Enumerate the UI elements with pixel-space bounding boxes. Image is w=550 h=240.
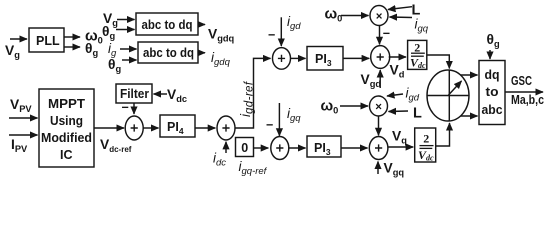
node GSC label [511, 74, 532, 88]
wire dq2abc to GSC [505, 91, 543, 93]
wire L to M2 [389, 110, 409, 113]
wire J5 to scaling bottom [388, 146, 413, 148]
multiplier M1 [370, 6, 388, 26]
summing junction J3 [273, 48, 291, 70]
block PI3 upper [307, 47, 343, 71]
svg-text:MPPT: MPPT [48, 97, 85, 111]
wire modulator to dq2abc lower [461, 115, 478, 117]
wire M2 to J5 [378, 116, 380, 135]
svg-text:to: to [486, 85, 499, 99]
wire thetag to abc2dq1 [116, 29, 135, 31]
block zero reference [236, 138, 254, 157]
block PI3 lower [307, 136, 341, 157]
modulator horizontal diameter [427, 95, 469, 97]
wire Filter to J1 [133, 103, 135, 114]
wire Vg to PLL [10, 38, 27, 40]
node igd label top [287, 14, 301, 32]
wire MPPT to junction J1 [94, 127, 124, 129]
wire igq to M1 [390, 16, 413, 19]
node thetag label col2a [102, 24, 115, 41]
wire 0 to J6 [254, 147, 269, 149]
wire thetag to abc2dq2 [122, 59, 137, 61]
wire igq to J6 [278, 103, 280, 136]
wire Vdc to Filter [154, 93, 168, 95]
block scaling 2/Vdc bottom [415, 128, 436, 162]
wire VPV to MPPT [9, 117, 38, 119]
wire J2 to J3 (igd-ref) [235, 58, 271, 128]
wire Vgd to J4 [379, 70, 381, 88]
block scaling 2/Vdc top [408, 40, 427, 69]
svg-text:Ma,b,c: Ma,b,c [511, 93, 544, 107]
block MPPT [39, 89, 94, 167]
wire scaling top to modulator [427, 55, 450, 68]
node L label bottom [413, 106, 422, 122]
wire J4 to scaling top [389, 56, 406, 58]
wire PLL to thetag [64, 46, 80, 48]
wire igd to J3 [280, 17, 282, 46]
node Vd label [390, 63, 405, 80]
wire omega0 to M2 [340, 105, 368, 107]
block PI4 [160, 115, 195, 137]
node Vq label [392, 129, 407, 146]
block abc-to-dq lower [138, 42, 198, 63]
sign minus at J3 [268, 28, 275, 42]
node Mabc label [511, 93, 544, 107]
wire J3 to PI3a [291, 57, 306, 59]
node IPV label [11, 137, 28, 154]
sign minus at J4 [383, 27, 390, 41]
wire modulator to dq2abc upper [461, 74, 478, 76]
node thetag label col2b [108, 57, 121, 74]
wire PLL to w0 [64, 36, 80, 38]
svg-text:−: − [268, 28, 275, 42]
summing junction J6 [271, 137, 289, 160]
modulator needle arrow [449, 81, 462, 95]
svg-text:dq: dq [485, 68, 500, 82]
svg-text:Using: Using [50, 114, 83, 128]
svg-text:Modified: Modified [41, 131, 92, 145]
node igq label top [415, 17, 429, 35]
svg-text:−: − [383, 27, 390, 41]
node L label top [412, 3, 421, 19]
block dq-to-abc [479, 61, 505, 125]
wire IPV to MPPT [9, 134, 38, 136]
svg-text:abc to dq: abc to dq [142, 18, 193, 32]
multiplier M2 [370, 96, 388, 116]
wire PI4 to J2 [195, 127, 215, 129]
wire thetag to dq2abc [489, 50, 491, 59]
node igdq label [211, 50, 231, 68]
svg-text:0: 0 [241, 141, 248, 155]
wire ig to abc2dq2 [120, 48, 137, 50]
wire PI3b to J5 [341, 147, 368, 149]
wire idc to J2 [225, 142, 227, 153]
node ig label [108, 41, 117, 59]
wire abc2dq1 out [198, 24, 205, 26]
node igd-ref rotated label [238, 80, 256, 117]
node Vgq label [384, 161, 405, 178]
wire abc2dq2 out [198, 52, 205, 54]
summing junction J4 [371, 46, 390, 69]
wire J6 to PI3b [288, 147, 305, 149]
wire scaling bottom to modulator [436, 123, 450, 146]
summing junction J2 [217, 116, 235, 140]
node omega0 bottom label [321, 98, 339, 116]
block PLL [29, 28, 64, 52]
node Vdc label [167, 87, 187, 104]
wire Vgq to J5 [377, 162, 379, 175]
svg-text:IC: IC [60, 148, 73, 162]
svg-text:2: 2 [423, 132, 429, 146]
wire M1 to J4 [379, 26, 381, 45]
svg-text:2: 2 [414, 41, 420, 55]
node Vdc-ref label [100, 137, 132, 154]
node igq label mid [287, 106, 301, 124]
svg-text:GSC: GSC [511, 74, 532, 88]
svg-text:abc: abc [482, 103, 503, 117]
node omega0 top label [325, 6, 343, 24]
node idc label [213, 151, 226, 169]
wire J1 to PI4 [143, 127, 158, 129]
modulator vertical diameter [448, 71, 450, 121]
svg-text:PLL: PLL [36, 34, 60, 48]
node Vg label col2 [103, 11, 118, 28]
svg-text:−: − [266, 118, 273, 132]
svg-text:L: L [413, 106, 422, 122]
wire L to M1 [388, 7, 412, 10]
node VPV label [10, 97, 32, 114]
svg-text:abc to dq: abc to dq [143, 46, 194, 60]
wire igd to M2 [387, 94, 403, 96]
node igq-ref label [239, 159, 268, 177]
block abc-to-dq upper [136, 13, 198, 35]
svg-text:−: − [122, 101, 129, 115]
modulator circle [427, 70, 469, 121]
summing junction J5 [369, 137, 388, 160]
node Vgdq label [208, 27, 235, 44]
summing junction J1 [125, 116, 143, 140]
node Vg input label [5, 43, 20, 60]
node thetag label [85, 41, 98, 58]
sign minus at J6 [266, 118, 273, 132]
wire Vg to abc2dq1 [117, 19, 135, 21]
node omega0 label [85, 28, 103, 46]
block Filter [116, 84, 152, 103]
node igd label mid [406, 86, 420, 104]
svg-text:Filter: Filter [120, 87, 149, 101]
wire PI3a to J4 [343, 57, 369, 59]
sign minus at J1 [122, 101, 129, 115]
node Vgd label [361, 72, 382, 89]
wire omega0 to M1 [341, 15, 369, 17]
node thetag label right [487, 32, 500, 49]
